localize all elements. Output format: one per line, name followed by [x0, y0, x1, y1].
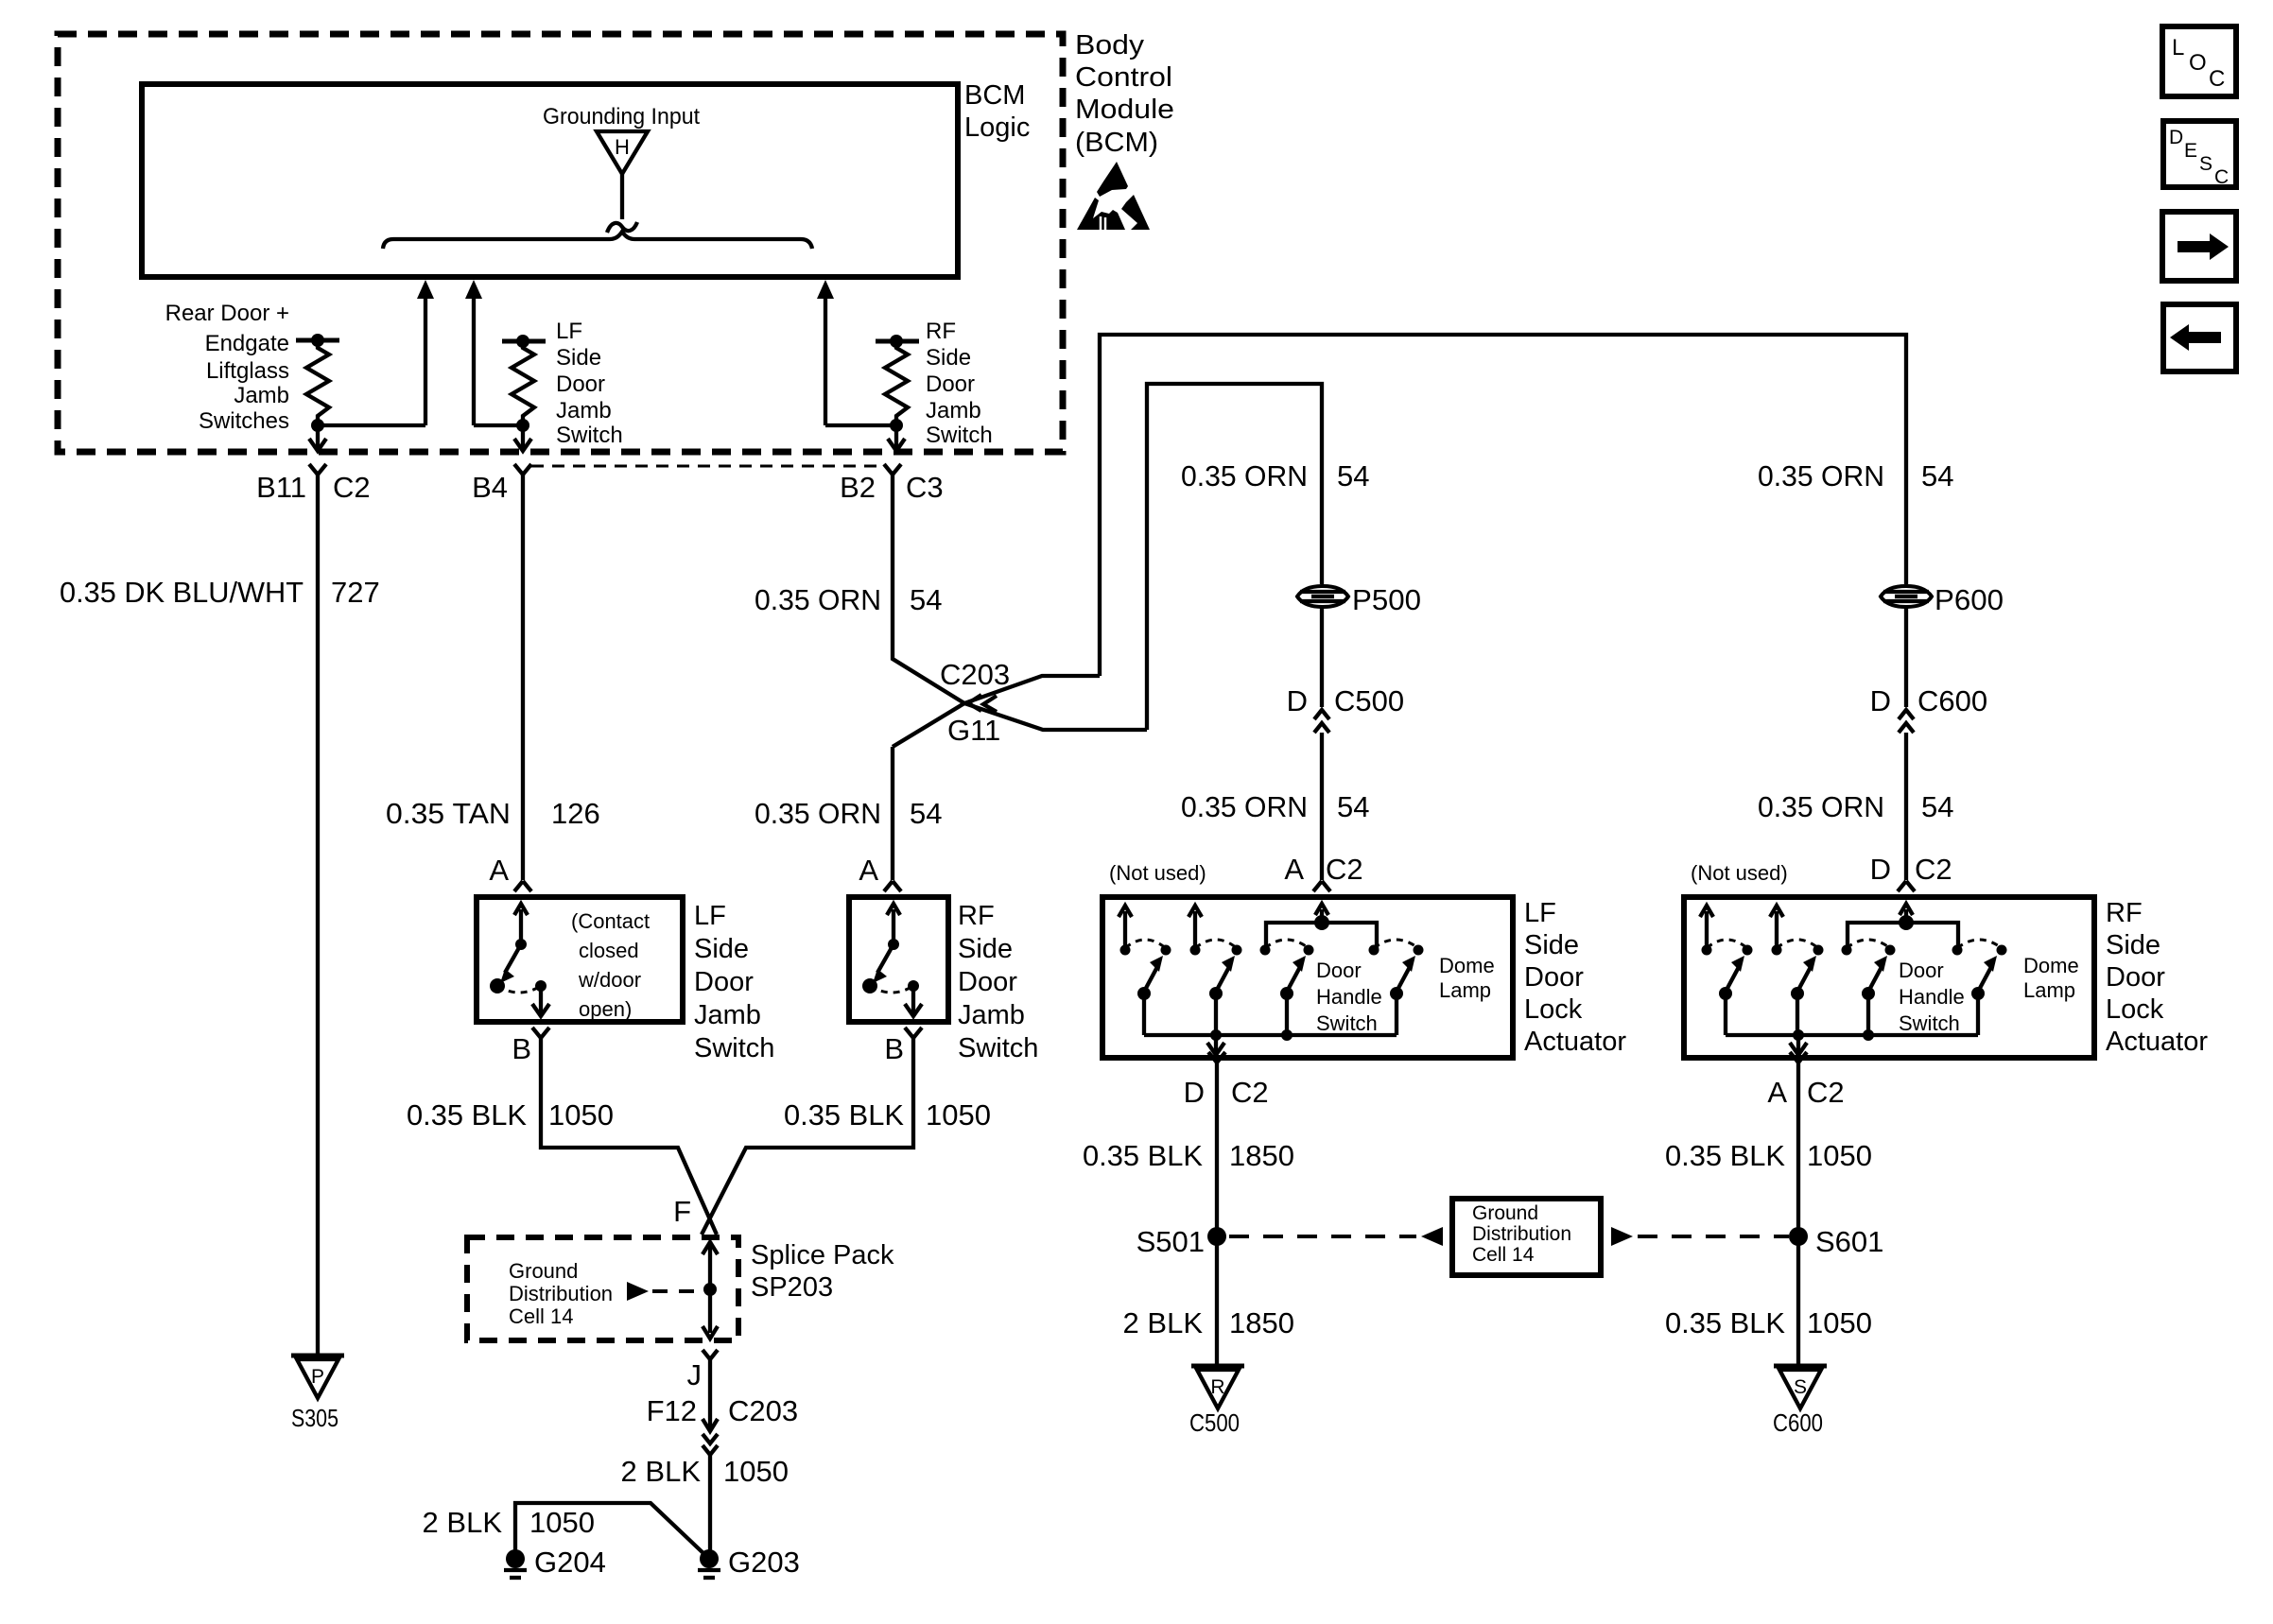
svg-text:Switch: Switch	[556, 423, 623, 448]
svg-text:0.35 ORN: 0.35 ORN	[1758, 459, 1884, 492]
svg-text:D: D	[1184, 1076, 1205, 1109]
pin J connector	[687, 1350, 719, 1391]
svg-text:C2: C2	[1807, 1076, 1845, 1109]
svg-text:0.35 BLK: 0.35 BLK	[407, 1098, 527, 1132]
svg-text:Jamb: Jamb	[234, 383, 289, 408]
wire B11 to S305	[316, 475, 320, 1354]
svg-text:Handle: Handle	[1899, 985, 1965, 1009]
svg-text:D: D	[1287, 684, 1308, 717]
svg-text:H: H	[615, 135, 630, 159]
RF jamb switch internals	[862, 904, 922, 1016]
svg-text:SP203: SP203	[751, 1272, 833, 1303]
svg-text:Switch: Switch	[1316, 1011, 1378, 1035]
RF actuator ground bus	[1726, 1029, 1978, 1055]
svg-text:S: S	[2199, 153, 2212, 175]
svg-text:1850: 1850	[1229, 1306, 1294, 1339]
svg-text:0.35 ORN: 0.35 ORN	[1181, 459, 1308, 492]
LF actuator ground bus	[1144, 1029, 1397, 1055]
label 0.35 ORN 54 (B2 upper)	[755, 583, 942, 616]
wire RF actuator to S triangle	[1796, 1063, 1800, 1364]
svg-text:Ground: Ground	[509, 1259, 578, 1283]
RF actuator dome lamp switch	[1952, 940, 2007, 1035]
svg-text:Door: Door	[1899, 959, 1944, 982]
svg-text:0.35 BLK: 0.35 BLK	[784, 1098, 904, 1132]
button right arrow	[2162, 212, 2236, 281]
svg-text:1050: 1050	[548, 1098, 614, 1132]
label 2 BLK 1050 (G204)	[423, 1506, 595, 1539]
svg-text:C2: C2	[1231, 1076, 1269, 1109]
label 0.35 ORN 54 (RF lock lower)	[1758, 790, 1953, 823]
svg-text:S501: S501	[1136, 1225, 1205, 1258]
svg-text:2 BLK: 2 BLK	[621, 1455, 702, 1488]
svg-text:D: D	[1870, 684, 1891, 717]
svg-text:G11: G11	[947, 714, 1000, 747]
node F	[673, 1195, 691, 1228]
svg-text:Side: Side	[556, 345, 601, 371]
dashed link S501 to ground distribution	[1229, 1227, 1443, 1246]
RF side door lock actuator box	[1684, 897, 2094, 1058]
svg-text:O: O	[2189, 50, 2207, 76]
grommet P500	[1297, 583, 1421, 616]
svg-text:C203: C203	[940, 658, 1010, 691]
label 2 BLK 1850	[1123, 1306, 1294, 1339]
svg-text:Lamp: Lamp	[2023, 978, 2075, 1002]
squiggle on grounding wire	[607, 222, 637, 233]
button left arrow	[2163, 304, 2236, 371]
label 0.35 DK BLU/WHT 727	[60, 576, 380, 609]
wire LF actuator to R triangle	[1215, 1063, 1219, 1364]
RF actuator switch 1 (not used)	[1700, 906, 1753, 1035]
label Door Handle Switch (RF)	[1899, 959, 1965, 1035]
wire branch to G204	[515, 1503, 707, 1559]
svg-text:A: A	[489, 854, 509, 887]
wire C600 to RF actuator	[1904, 733, 1908, 880]
LF actuator feed bracket	[1266, 904, 1377, 949]
svg-text:C500: C500	[1189, 1408, 1240, 1437]
svg-text:C: C	[2214, 166, 2229, 188]
LF actuator switch 1 (not used)	[1119, 906, 1171, 1035]
svg-text:Grounding Input: Grounding Input	[543, 104, 700, 130]
svg-text:(Not used): (Not used)	[1109, 861, 1206, 885]
svg-text:RF: RF	[926, 319, 956, 344]
svg-text:1850: 1850	[1229, 1139, 1294, 1172]
svg-text:C600: C600	[1773, 1408, 1823, 1437]
svg-text:0.35 ORN: 0.35 ORN	[1181, 790, 1308, 823]
pointer triangle and dashed link (SP203)	[627, 1282, 703, 1301]
svg-text:C3: C3	[906, 471, 944, 504]
svg-text:Dome: Dome	[1439, 954, 1495, 977]
svg-text:w/door: w/door	[578, 968, 641, 992]
svg-text:Distribution: Distribution	[509, 1282, 613, 1305]
label RF Side Door Jamb Switch (resistor)	[926, 319, 993, 448]
label 0.35 BLK 1050 (RF lower)	[1665, 1306, 1872, 1339]
dashed link ground distribution to S601	[1611, 1227, 1789, 1246]
brace over BCM inputs	[383, 232, 812, 249]
grounding input triangle H	[597, 131, 648, 174]
label Door Handle Switch (LF)	[1316, 959, 1382, 1035]
svg-text:E: E	[2184, 140, 2197, 162]
label Rear Door + Endgate Liftglass Jamb Switches	[165, 301, 289, 434]
svg-text:0.35 ORN: 0.35 ORN	[755, 583, 881, 616]
svg-text:54: 54	[1921, 790, 1953, 823]
svg-text:54: 54	[1337, 790, 1369, 823]
connector C3 thin dashed line	[531, 465, 877, 468]
label 0.35 ORN 54 (LF lock lower)	[1181, 790, 1369, 823]
splice S601	[1789, 1225, 1883, 1258]
svg-text:Logic: Logic	[964, 112, 1030, 143]
wire arrow into BCM from B11 branch	[318, 280, 434, 425]
svg-text:Handle: Handle	[1316, 985, 1382, 1009]
pin A C2 LF actuator	[1284, 853, 1362, 891]
svg-text:C2: C2	[333, 471, 371, 504]
pin B LF jamb switch	[512, 1028, 549, 1065]
svg-text:Lock: Lock	[1524, 994, 1583, 1025]
label LF Side Door Jamb Switch (resistor)	[556, 319, 623, 448]
svg-text:Splice Pack: Splice Pack	[751, 1240, 894, 1270]
svg-text:Door: Door	[1316, 959, 1362, 982]
label Dome Lamp (RF)	[2023, 954, 2079, 1002]
svg-text:P: P	[311, 1366, 324, 1388]
svg-text:Door: Door	[926, 371, 975, 397]
splice pack SP203 dashed box	[467, 1237, 738, 1340]
svg-text:S305: S305	[291, 1404, 338, 1432]
pin A LF jamb switch	[489, 854, 531, 891]
svg-text:B2: B2	[840, 471, 876, 504]
svg-text:C2: C2	[1915, 853, 1952, 886]
LF actuator dome lamp switch	[1369, 940, 1424, 1035]
svg-text:Cell 14: Cell 14	[1472, 1244, 1535, 1266]
svg-text:1050: 1050	[723, 1455, 789, 1488]
RF side door jamb switch box	[849, 897, 948, 1022]
label BCM Logic	[964, 80, 1030, 143]
svg-text:1050: 1050	[1807, 1306, 1872, 1339]
long wire to P600 chain	[1100, 335, 1906, 676]
wire arrow into BCM from RF branch	[817, 280, 896, 425]
ground distribution cell 14 box	[1452, 1199, 1601, 1275]
svg-text:Switch: Switch	[958, 1033, 1038, 1063]
wire from triangle H	[620, 174, 624, 219]
label 0.35 BLK 1050 (LF jamb)	[407, 1098, 614, 1132]
svg-text:1050: 1050	[529, 1506, 595, 1539]
svg-text:54: 54	[1921, 459, 1953, 492]
wire P500 to C500	[1320, 607, 1324, 707]
svg-text:Jamb: Jamb	[694, 1000, 761, 1030]
LF actuator switch 2 (not used)	[1189, 906, 1242, 1035]
svg-text:Switch: Switch	[694, 1033, 774, 1063]
svg-text:2 BLK: 2 BLK	[1123, 1306, 1204, 1339]
resistor rear door jamb switches	[296, 334, 339, 451]
RF actuator feed bracket	[1848, 904, 1958, 949]
pin D C2 LF actuator bottom	[1184, 1052, 1269, 1109]
label 0.35 BLK 1050 (RF jamb)	[784, 1098, 991, 1132]
ESD warning symbol	[1077, 162, 1150, 230]
svg-text:Module: Module	[1075, 95, 1174, 125]
svg-text:B: B	[512, 1032, 531, 1065]
svg-text:LF: LF	[694, 901, 726, 931]
button LOC	[2162, 26, 2236, 96]
svg-text:J: J	[687, 1358, 703, 1391]
label (Not used) RF	[1691, 861, 1788, 885]
label 2 BLK 1050 (center)	[621, 1455, 789, 1488]
wire P600 to C600	[1904, 607, 1908, 707]
svg-text:0.35 ORN: 0.35 ORN	[1758, 790, 1884, 823]
resistor RF side door jamb switch	[876, 335, 919, 451]
pin B4 connector	[472, 464, 531, 504]
svg-text:1050: 1050	[1807, 1139, 1872, 1172]
svg-text:Door: Door	[2106, 962, 2165, 993]
svg-text:BCM: BCM	[964, 80, 1025, 111]
svg-text:L: L	[2172, 35, 2184, 60]
P triangle S305	[291, 1356, 344, 1432]
wire arrow into BCM from LF branch	[465, 280, 523, 425]
svg-text:P500: P500	[1352, 583, 1421, 616]
svg-text:Side: Side	[694, 934, 749, 964]
svg-text:Door: Door	[556, 371, 605, 397]
svg-text:D: D	[2169, 127, 2183, 148]
svg-text:(Not used): (Not used)	[1691, 861, 1788, 885]
svg-text:A: A	[1284, 853, 1304, 886]
svg-text:Actuator: Actuator	[2106, 1027, 2208, 1057]
label LF Side Door Jamb Switch	[694, 901, 774, 1063]
svg-text:(BCM): (BCM)	[1075, 128, 1158, 158]
wire C500 to LF actuator	[1320, 733, 1324, 880]
svg-text:Liftglass: Liftglass	[206, 358, 289, 384]
svg-text:54: 54	[910, 583, 942, 616]
svg-text:closed: closed	[579, 939, 639, 962]
svg-text:(Contact: (Contact	[571, 909, 650, 933]
grommet P600	[1881, 583, 2004, 616]
label Body Control Module (BCM)	[1075, 30, 1174, 158]
wire B4 to LF jamb switch	[521, 475, 525, 880]
wire B2 to crossover	[893, 475, 964, 703]
svg-text:Switch: Switch	[1899, 1011, 1960, 1035]
label 0.35 ORN 54 (LF lock upper)	[1181, 459, 1369, 492]
svg-text:Control: Control	[1075, 62, 1172, 93]
svg-text:0.35 BLK: 0.35 BLK	[1665, 1139, 1785, 1172]
svg-text:54: 54	[1337, 459, 1369, 492]
LF jamb switch internals	[490, 904, 549, 1016]
LF side door lock actuator box	[1102, 897, 1513, 1058]
connector D C600	[1870, 684, 1988, 733]
pin A RF jamb switch	[859, 854, 901, 891]
label 0.35 BLK 1050 (RF upper)	[1665, 1139, 1872, 1172]
label Grounding Input	[543, 104, 700, 130]
label 0.35 TAN 126	[386, 797, 600, 830]
svg-text:2 BLK: 2 BLK	[423, 1506, 503, 1539]
svg-text:open): open)	[579, 997, 632, 1021]
svg-text:B: B	[884, 1032, 904, 1065]
ground G203	[698, 1546, 800, 1579]
svg-text:F12: F12	[647, 1394, 697, 1427]
wire crossover to RF jamb A	[891, 747, 894, 880]
label 0.35 ORN 54 (B2 lower)	[755, 797, 942, 830]
svg-text:Endgate: Endgate	[205, 331, 289, 356]
splice S501	[1136, 1225, 1226, 1258]
label RF Side Door Jamb Switch	[958, 901, 1038, 1063]
pin D C2 RF actuator	[1870, 853, 1952, 891]
connector F12 C203	[647, 1394, 799, 1455]
svg-text:0.35 TAN: 0.35 TAN	[386, 797, 511, 830]
label Dome Lamp (LF)	[1439, 954, 1495, 1002]
svg-text:Side: Side	[958, 934, 1013, 964]
svg-text:0.35 DK BLU/WHT: 0.35 DK BLU/WHT	[60, 576, 304, 609]
svg-text:Door: Door	[958, 967, 1017, 997]
svg-text:F: F	[673, 1195, 691, 1228]
svg-text:Dome: Dome	[2023, 954, 2079, 977]
svg-text:C600: C600	[1917, 684, 1987, 717]
svg-text:Switch: Switch	[926, 423, 993, 448]
svg-text:Lamp: Lamp	[1439, 978, 1491, 1002]
svg-text:Switches: Switches	[199, 408, 289, 434]
pin B RF jamb switch	[884, 1028, 922, 1065]
svg-text:Door: Door	[694, 967, 754, 997]
ground G204	[504, 1546, 606, 1579]
label Splice Pack SP203	[751, 1240, 894, 1303]
BCM dashed outline box	[58, 34, 1063, 452]
svg-text:S: S	[1794, 1376, 1807, 1398]
svg-text:0.35 BLK: 0.35 BLK	[1665, 1306, 1785, 1339]
svg-text:LF: LF	[1524, 898, 1556, 928]
svg-text:Body: Body	[1075, 30, 1145, 60]
label LF Side Door Lock Actuator	[1524, 898, 1626, 1057]
svg-text:Door: Door	[1524, 962, 1584, 993]
svg-text:S601: S601	[1815, 1225, 1883, 1258]
label (Not used) LF	[1109, 861, 1206, 885]
wire LF jamb B to splice F	[541, 1038, 717, 1235]
svg-text:A: A	[1767, 1076, 1787, 1109]
RF actuator door handle switch	[1842, 940, 1896, 1035]
svg-text:Distribution: Distribution	[1472, 1223, 1571, 1245]
pin A C2 RF actuator bottom	[1767, 1052, 1844, 1109]
wire C203 to G203	[708, 1455, 712, 1555]
svg-text:Actuator: Actuator	[1524, 1027, 1626, 1057]
svg-text:C500: C500	[1334, 684, 1404, 717]
svg-text:Side: Side	[926, 345, 971, 371]
SP203 internal wire with arrows	[703, 1241, 718, 1339]
svg-text:0.35 ORN: 0.35 ORN	[755, 797, 881, 830]
wire J to C203 connector	[703, 1359, 718, 1431]
svg-text:C2: C2	[1326, 853, 1363, 886]
svg-text:Side: Side	[2106, 930, 2160, 960]
svg-text:126: 126	[551, 797, 600, 830]
svg-text:0.35 BLK: 0.35 BLK	[1083, 1139, 1203, 1172]
svg-text:Side: Side	[1524, 930, 1579, 960]
wire to P500 chain	[1147, 384, 1322, 730]
svg-text:R: R	[1210, 1376, 1224, 1398]
label 0.35 BLK 1850	[1083, 1139, 1294, 1172]
S triangle C600	[1773, 1366, 1827, 1437]
svg-text:Jamb: Jamb	[958, 1000, 1025, 1030]
svg-text:Rear Door +: Rear Door +	[165, 301, 289, 326]
svg-text:Jamb: Jamb	[556, 398, 612, 423]
label RF Side Door Lock Actuator	[2106, 898, 2208, 1057]
button DESC	[2163, 121, 2236, 188]
svg-text:LF: LF	[556, 319, 582, 344]
svg-text:RF: RF	[2106, 898, 2143, 928]
svg-text:C203: C203	[728, 1394, 798, 1427]
svg-text:Lock: Lock	[2106, 994, 2164, 1025]
connector D C500	[1287, 684, 1405, 733]
pin B2 connector	[840, 464, 944, 504]
wire RF jamb B to splice F	[702, 1038, 913, 1235]
label 0.35 ORN 54 (RF lock upper)	[1758, 459, 1953, 492]
svg-text:Jamb: Jamb	[926, 398, 981, 423]
R triangle C500	[1189, 1366, 1244, 1437]
label (Contact closed w/door open)	[571, 909, 650, 1021]
svg-text:54: 54	[910, 797, 942, 830]
svg-text:D: D	[1870, 853, 1891, 886]
svg-text:C: C	[2209, 66, 2225, 92]
svg-text:Ground: Ground	[1472, 1202, 1538, 1224]
BCM logic box U1	[142, 84, 958, 277]
resistor LF side door jamb switch	[502, 335, 546, 451]
pin B11 connector	[256, 464, 371, 504]
svg-text:RF: RF	[958, 901, 995, 931]
LF actuator door handle switch	[1260, 940, 1314, 1035]
label Ground Distribution Cell 14 (SP203)	[509, 1259, 613, 1328]
svg-text:G204: G204	[534, 1546, 606, 1579]
LF side door jamb switch box	[477, 897, 683, 1022]
svg-text:B11: B11	[256, 471, 306, 504]
svg-text:1050: 1050	[926, 1098, 991, 1132]
svg-text:P600: P600	[1935, 583, 2004, 616]
svg-text:727: 727	[331, 576, 380, 609]
svg-text:A: A	[859, 854, 878, 887]
svg-text:Cell 14: Cell 14	[509, 1304, 573, 1328]
svg-text:B4: B4	[472, 471, 508, 504]
RF actuator switch 2 (not used)	[1770, 906, 1824, 1035]
crossover connector C203 G11	[893, 658, 1147, 747]
svg-text:G203: G203	[728, 1546, 800, 1579]
